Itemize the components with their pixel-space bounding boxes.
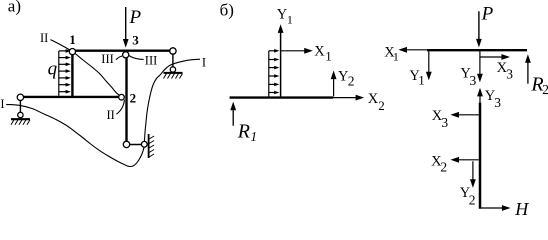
svg-text:1: 1 bbox=[250, 129, 257, 144]
force H arrow right (part b right lower) bbox=[481, 205, 511, 211]
svg-text:2: 2 bbox=[348, 74, 355, 89]
force X3 arrow right (part b right) bbox=[480, 54, 510, 60]
force P (part b right) bbox=[476, 11, 482, 47]
svg-text:3: 3 bbox=[470, 73, 477, 88]
force Y3 arrow up (part b right lower) bbox=[477, 88, 483, 103]
force X3 arrow left (part b right lower) bbox=[450, 112, 479, 118]
svg-text:2: 2 bbox=[440, 160, 447, 175]
distributed load (part b mid) bbox=[269, 51, 275, 97]
grand leader curve I to I through both pendulum supports bbox=[6, 59, 200, 166]
svg-text:X: X bbox=[314, 44, 325, 60]
svg-text:P: P bbox=[129, 7, 142, 28]
leader II through hinge 1 to hinge 2 bbox=[50, 40, 121, 97]
svg-text:3: 3 bbox=[132, 32, 139, 47]
svg-text:P: P bbox=[481, 4, 494, 25]
svg-text:а): а) bbox=[8, 0, 21, 16]
hinge bottom of member 3-2 bbox=[123, 141, 129, 147]
ground right support bbox=[164, 73, 183, 79]
svg-text:III: III bbox=[145, 54, 158, 68]
svg-text:1: 1 bbox=[393, 50, 399, 64]
hinge top-right chord end bbox=[170, 48, 176, 54]
svg-text:2: 2 bbox=[130, 91, 137, 106]
force Y2 arrow (part b mid) bbox=[331, 71, 337, 97]
svg-text:I: I bbox=[0, 97, 4, 111]
svg-text:3: 3 bbox=[506, 66, 513, 81]
svg-text:2: 2 bbox=[542, 82, 548, 97]
member right column 3-2-bottom bbox=[125, 58, 127, 142]
hinge at wall bbox=[141, 141, 147, 147]
force R2 arrow up (part b right) bbox=[525, 54, 531, 83]
member horizontal (part b right) bbox=[427, 49, 527, 51]
force Y1 axis arrow (part b mid) bbox=[278, 24, 284, 97]
member horizontal (part b mid) bbox=[230, 96, 333, 98]
svg-text:X: X bbox=[368, 91, 379, 107]
hinge node 3 bbox=[123, 52, 129, 58]
svg-text:III: III bbox=[101, 52, 114, 66]
hinge left support lower bbox=[18, 112, 23, 117]
force Y3 arrow down (part b right) bbox=[477, 51, 483, 82]
svg-text:3: 3 bbox=[441, 115, 448, 130]
svg-text:q: q bbox=[48, 59, 58, 80]
force X1 arrow left (part b right) bbox=[398, 47, 427, 53]
ground left support bbox=[11, 119, 30, 125]
force P (part a) bbox=[123, 7, 129, 48]
svg-text:1: 1 bbox=[287, 12, 293, 26]
force X2 arrow (part b mid) bbox=[333, 95, 364, 101]
force Y1 arrow down (part b right) bbox=[426, 51, 432, 80]
distributed load q arrows bbox=[59, 51, 67, 96]
force R1 arrow (part b mid) bbox=[230, 102, 236, 126]
svg-text:II: II bbox=[40, 31, 48, 45]
svg-text:1: 1 bbox=[69, 32, 76, 47]
svg-text:3: 3 bbox=[494, 95, 501, 110]
member vertical (part b right) bbox=[479, 103, 482, 209]
force X2 arrow left (part b right lower) bbox=[450, 157, 478, 163]
svg-text:1: 1 bbox=[418, 72, 425, 87]
wall with hatching bbox=[149, 134, 155, 158]
force Y2 arrow down (part b right lower) bbox=[470, 161, 476, 188]
svg-text:2: 2 bbox=[469, 193, 476, 208]
member left column under node 1 bbox=[71, 51, 73, 98]
leader III right from node 3 bbox=[129, 56, 144, 60]
svg-text:R: R bbox=[237, 121, 250, 143]
svg-text:1: 1 bbox=[325, 49, 332, 64]
horizontal link to wall bbox=[130, 144, 142, 146]
leader II bottom to member 3-2 bbox=[116, 100, 124, 115]
force X1 arrow (part b mid) bbox=[281, 48, 313, 54]
hinge node 2 bbox=[119, 94, 125, 100]
svg-text:H: H bbox=[514, 199, 529, 216]
leader III left to node 3 bbox=[116, 56, 122, 60]
hinge node 1 bbox=[69, 49, 75, 55]
svg-text:II: II bbox=[107, 108, 115, 122]
svg-text:б): б) bbox=[220, 0, 234, 19]
svg-text:2: 2 bbox=[378, 98, 385, 113]
svg-text:I: I bbox=[202, 56, 206, 70]
pendulum link right support bbox=[172, 54, 174, 67]
hinge right support lower bbox=[170, 67, 175, 72]
member middle chord to node 2 bbox=[20, 96, 121, 98]
pendulum link left support bbox=[19, 100, 21, 112]
hinge left support top bbox=[17, 94, 23, 100]
member top chord 1-3-right bbox=[71, 50, 174, 52]
